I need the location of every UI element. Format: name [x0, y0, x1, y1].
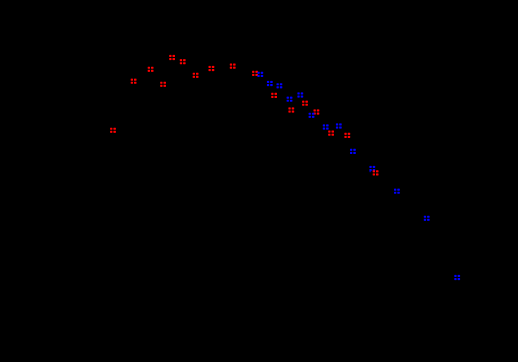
atom oxygen O1 — [110, 128, 116, 133]
atom nitrogen N4 — [287, 97, 293, 102]
atom oxygen O9 — [230, 64, 236, 69]
atom nitrogen N13 — [454, 275, 460, 280]
atom nitrogen N9 — [350, 149, 356, 154]
atom nitrogen N12 — [424, 216, 430, 221]
atom nitrogen N11 — [394, 189, 400, 194]
atom oxygen O16 — [344, 133, 350, 138]
atom nitrogen N10 — [369, 166, 375, 171]
atom oxygen O12 — [288, 107, 294, 112]
atom oxygen O13 — [302, 101, 308, 106]
atom oxygen O3 — [148, 67, 154, 72]
atom oxygen O5 — [169, 55, 175, 60]
atom oxygen O8 — [209, 66, 215, 71]
atom oxygen O2 — [131, 79, 137, 84]
atom nitrogen N5 — [297, 92, 303, 97]
atom nitrogen N7 — [323, 124, 329, 129]
atom oxygen O7 — [193, 73, 199, 78]
atom oxygen O11 — [271, 93, 277, 98]
atom nitrogen N6 — [309, 113, 315, 118]
atom oxygen O4 — [160, 82, 166, 87]
amide H on N10 — [369, 171, 371, 173]
atom oxygen O6 — [180, 59, 186, 64]
atom oxygen O15 — [328, 131, 334, 136]
atom nitrogen N8 — [336, 123, 342, 128]
atom nitrogen N3 — [277, 83, 283, 88]
atom oxygen O14 — [314, 109, 320, 114]
atom nitrogen N1 — [257, 72, 263, 77]
atom nitrogen N2 — [267, 81, 273, 86]
atom oxygen O10 — [252, 71, 258, 76]
atom oxygen O17 — [373, 170, 379, 175]
